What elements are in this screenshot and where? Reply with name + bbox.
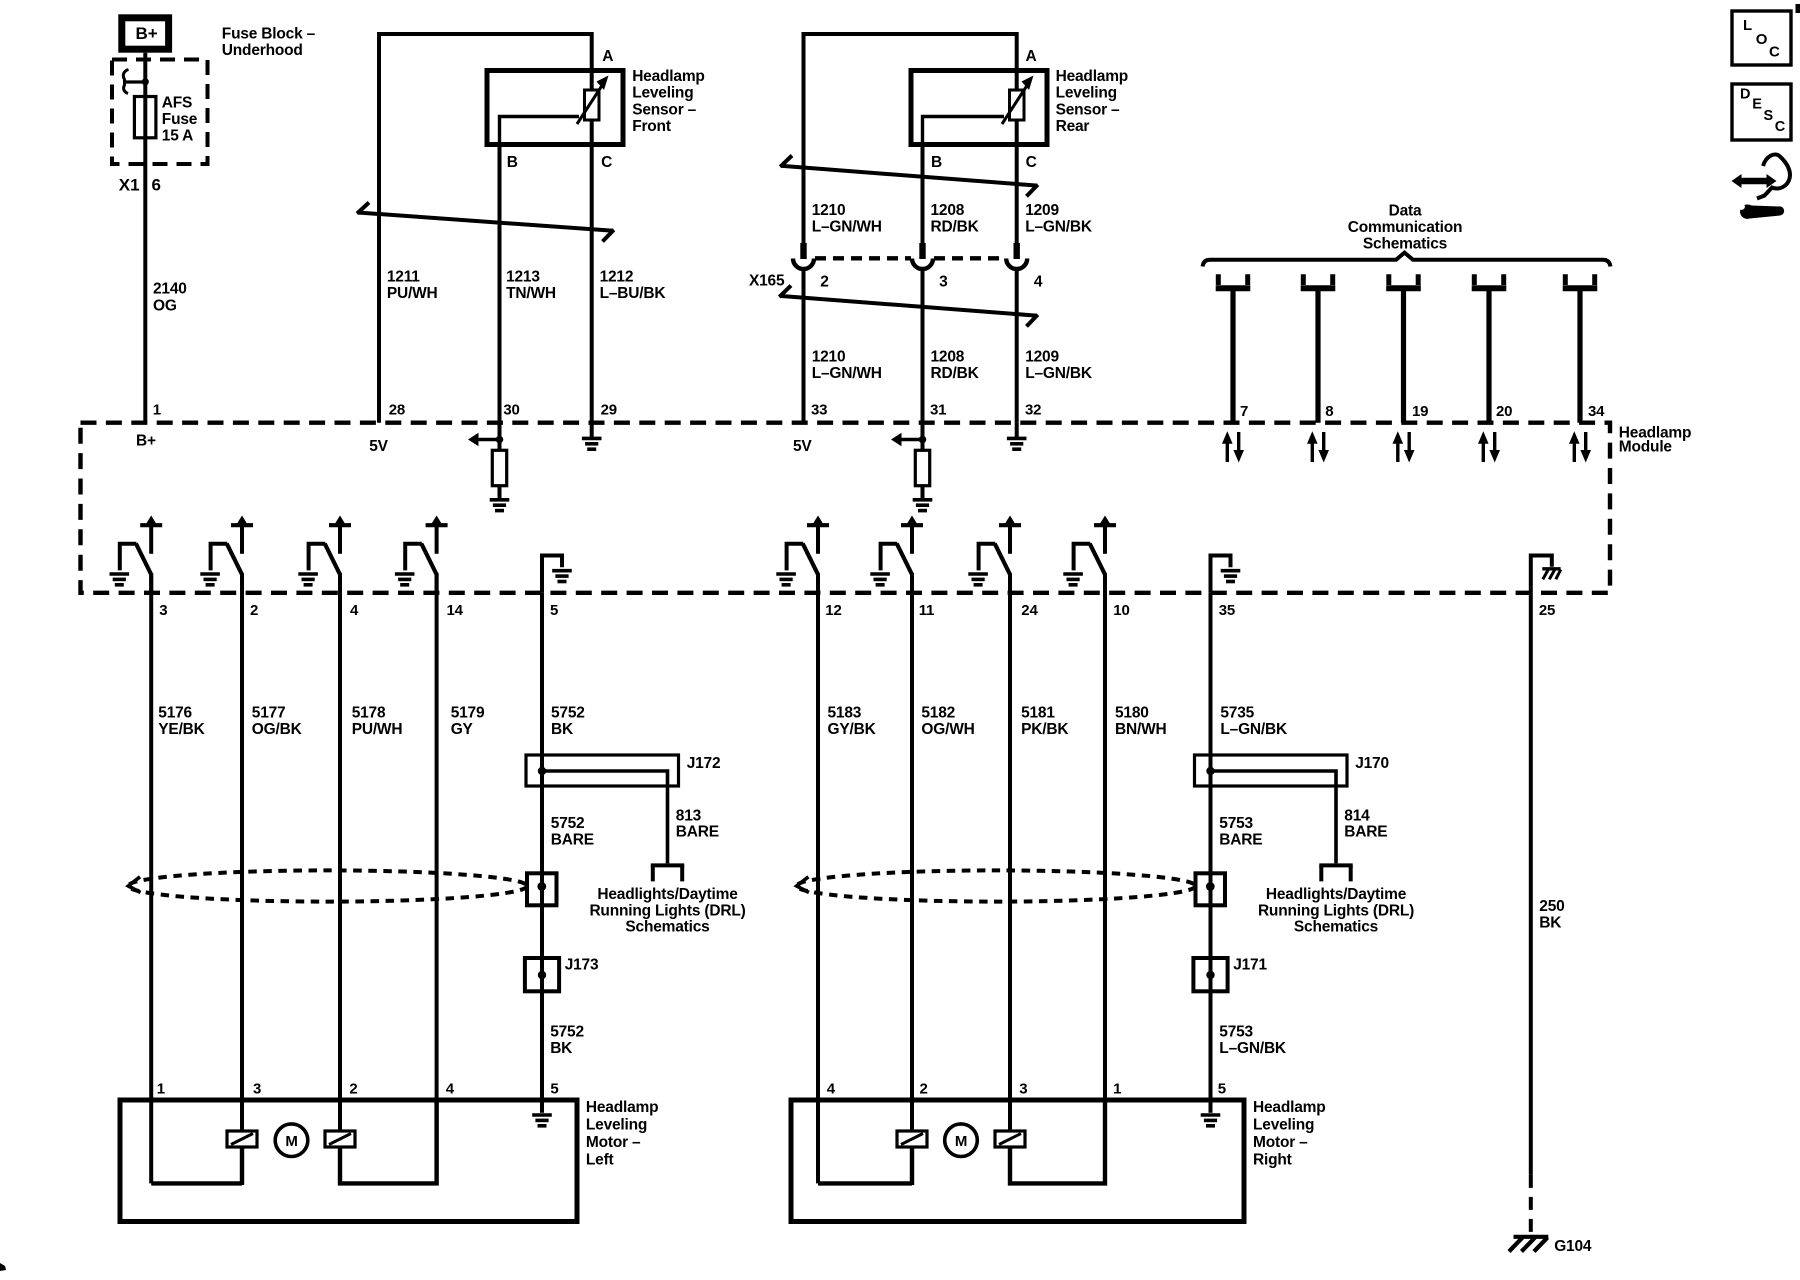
svg-text:GY/BK: GY/BK (828, 721, 877, 738)
svg-text:M: M (955, 1133, 967, 1150)
svg-text:4: 4 (350, 602, 359, 619)
svg-text:BARE: BARE (551, 832, 594, 849)
svg-text:Motor –: Motor – (1253, 1134, 1308, 1151)
bidirectional data arrows pin 20 (1478, 431, 1500, 462)
driver switch pin 11 (870, 516, 923, 593)
headlamp module label (1619, 424, 1691, 455)
wire pin 31 lower (921, 270, 925, 423)
svg-text:BN/WH: BN/WH (1115, 721, 1167, 738)
wire 5735 pin 35 to motor (1209, 593, 1213, 1100)
svg-text:OG/WH: OG/WH (921, 721, 974, 738)
motor left name label (586, 1099, 658, 1169)
svg-text:5181: 5181 (1021, 705, 1055, 722)
wire 5180 pin 10 to motor (1103, 574, 1107, 1183)
data connector stub net 20 (1472, 274, 1507, 423)
svg-text:19: 19 (1412, 403, 1428, 420)
DRL schematic connector left (651, 865, 684, 881)
wire label 1210 L-GN/WH lower (812, 349, 882, 383)
wire label 5753 L-GN/BK lower (1219, 1024, 1287, 1058)
svg-text:Data: Data (1389, 203, 1422, 220)
svg-text:3: 3 (939, 274, 948, 291)
svg-text:Front: Front (632, 118, 671, 135)
svg-text:Module: Module (1619, 438, 1673, 455)
svg-text:5178: 5178 (352, 705, 386, 722)
wire label 813 BARE (676, 808, 719, 841)
svg-text:BK: BK (1539, 915, 1562, 932)
wire B rear upper (921, 145, 925, 244)
pull-up arrow resistor ground pin 31 (891, 423, 932, 511)
wire label 1209 L-GN/BK upper (1025, 202, 1093, 236)
svg-text:250: 250 (1539, 898, 1564, 915)
svg-text:Headlamp: Headlamp (632, 68, 704, 85)
svg-text:E: E (1752, 97, 1762, 113)
brush resistor motor right B (995, 1131, 1025, 1147)
svg-text:RD/BK: RD/BK (931, 365, 980, 382)
wire 5178 pin 4 to motor (338, 574, 342, 1131)
svg-text:33: 33 (811, 402, 827, 419)
svg-text:Schematics: Schematics (1294, 919, 1378, 936)
shield arrow tip right (797, 877, 809, 893)
wire B front to pin 30 (498, 145, 502, 423)
wire C rear upper (1015, 120, 1019, 243)
bidirectional data arrows pin 7 (1222, 431, 1244, 462)
wire label 5752 BK (551, 705, 585, 739)
svg-text:5: 5 (550, 602, 558, 619)
svg-text:5: 5 (550, 1081, 558, 1098)
wire label 5752 BK lower (550, 1024, 584, 1058)
svg-text:Schematics: Schematics (1363, 235, 1447, 252)
shield arrow tip left (128, 877, 140, 893)
svg-text:A: A (602, 48, 613, 65)
svg-text:1208: 1208 (931, 202, 965, 219)
svg-text:L–GN/WH: L–GN/WH (812, 365, 882, 382)
svg-text:1209: 1209 (1025, 202, 1059, 219)
DRL reference label left (589, 886, 745, 936)
shield ellipse left (128, 870, 527, 901)
wire pin 32 lower (1015, 270, 1019, 423)
svg-text:BARE: BARE (1219, 832, 1262, 849)
svg-text:1211: 1211 (387, 269, 420, 286)
svg-text:PK/BK: PK/BK (1021, 721, 1069, 738)
svg-text:35: 35 (1219, 602, 1235, 619)
svg-text:B+: B+ (136, 24, 158, 43)
svg-text:5V: 5V (369, 438, 388, 455)
svg-text:Running Lights (DRL): Running Lights (DRL) (589, 902, 745, 919)
internal ground pin 35 (1211, 556, 1241, 593)
svg-text:PU/WH: PU/WH (352, 721, 403, 738)
data communication schematics label (1348, 203, 1463, 253)
wire label 1211 PU/WH (387, 269, 438, 303)
svg-text:L–GN/BK: L–GN/BK (1219, 1040, 1287, 1057)
DRL schematic connector right (1319, 865, 1352, 881)
wire 5182 pin 11 to motor (910, 574, 914, 1131)
svg-text:Leveling: Leveling (1056, 85, 1117, 102)
svg-text:BK: BK (550, 1040, 573, 1057)
wire 250 BK pin 25 to G104 (1529, 593, 1533, 1175)
wire label 5177 OG/BK (252, 705, 303, 739)
svg-text:5752: 5752 (551, 815, 585, 832)
svg-text:O: O (1756, 31, 1768, 48)
svg-text:1212: 1212 (600, 269, 634, 286)
crossing indicator rear upper (780, 156, 1038, 197)
fuse value label (162, 95, 198, 145)
bidirectional data arrows pin 19 (1393, 431, 1415, 462)
motor M right (945, 1124, 978, 1157)
driver switch pin 14 (395, 516, 448, 593)
splice J171 (1193, 958, 1227, 991)
wire 5183 pin 12 to motor (816, 574, 820, 1183)
wire label 5179 GY (451, 705, 485, 739)
driver switch pin 24 (968, 516, 1021, 593)
svg-text:3: 3 (1019, 1081, 1027, 1098)
svg-text:3: 3 (253, 1081, 261, 1098)
wire dashed segment to G104 (1529, 1175, 1533, 1234)
wire label 5753 BARE (1219, 815, 1262, 849)
wire B+ to fuse (143, 53, 147, 97)
splice J172 (526, 755, 679, 786)
headlamp leveling sensor rear box (911, 71, 1047, 145)
data connector stub net 19 (1386, 274, 1421, 423)
wiper wire front (500, 117, 580, 145)
wiper wire rear (923, 117, 1005, 145)
svg-text:Leveling: Leveling (632, 85, 693, 102)
svg-text:15 A: 15 A (162, 128, 193, 145)
wire label 5182 OG/WH (921, 705, 974, 739)
brush resistor motor left A (227, 1131, 257, 1147)
brush resistor motor left B (325, 1131, 355, 1147)
potentiometer front (577, 76, 609, 125)
sensor rear name label (1056, 68, 1128, 135)
B+ power symbol (122, 18, 169, 49)
svg-text:YE/BK: YE/BK (158, 721, 205, 738)
driver switch pin 2 (200, 516, 253, 593)
svg-text:5753: 5753 (1219, 815, 1253, 832)
wire label 250 BK (1539, 898, 1564, 932)
svg-text:31: 31 (930, 402, 946, 419)
svg-text:1213: 1213 (506, 269, 540, 286)
svg-text:B+: B+ (136, 432, 156, 449)
svg-text:GY: GY (451, 721, 474, 738)
svg-text:5179: 5179 (451, 705, 485, 722)
wire pin 33 lower (802, 270, 806, 423)
svg-text:Headlamp: Headlamp (586, 1099, 658, 1116)
svg-text:28: 28 (389, 402, 405, 419)
connector X165 terminal 4 (1006, 243, 1027, 269)
svg-text:PU/WH: PU/WH (387, 285, 438, 302)
svg-text:1210: 1210 (812, 349, 846, 366)
svg-text:5177: 5177 (252, 705, 286, 722)
ground pin 29 (582, 423, 602, 449)
svg-text:M: M (285, 1133, 297, 1150)
svg-text:A: A (1026, 48, 1037, 65)
headlamp leveling sensor front box (487, 71, 623, 145)
svg-text:4: 4 (446, 1081, 455, 1098)
driver switch pin 3 (110, 516, 163, 593)
svg-text:S: S (1764, 108, 1774, 124)
svg-text:5180: 5180 (1115, 705, 1149, 722)
svg-text:BARE: BARE (676, 824, 719, 841)
svg-text:OG: OG (153, 298, 177, 315)
potentiometer rear (1002, 76, 1034, 125)
fuse AFS 15A (134, 97, 156, 138)
motor M left (275, 1124, 308, 1157)
svg-text:Headlights/Daytime: Headlights/Daytime (597, 886, 738, 903)
page artifact bottom left (0, 1263, 6, 1271)
wire 5177 pin 2 to motor (240, 574, 244, 1131)
svg-text:L–GN/WH: L–GN/WH (812, 219, 882, 236)
svg-text:J171: J171 (1233, 957, 1267, 974)
svg-text:X1: X1 (119, 176, 140, 195)
svg-text:32: 32 (1025, 402, 1041, 419)
svg-text:8: 8 (1325, 403, 1333, 420)
bidirectional data arrows pin 34 (1569, 431, 1591, 462)
wire brush B to bus (340, 1102, 437, 1183)
wire label 5752 BARE (551, 815, 594, 849)
svg-text:L–GN/BK: L–GN/BK (1025, 365, 1093, 382)
shield ellipse right (797, 870, 1196, 901)
wire label 814 BARE (1344, 808, 1387, 841)
wire fuse to module pin 1 (143, 138, 147, 423)
splice J173 (525, 958, 559, 991)
driver switch pin 12 (776, 516, 829, 593)
wire label 1209 L-GN/BK lower (1025, 349, 1093, 383)
svg-text:Motor –: Motor – (586, 1134, 641, 1151)
svg-text:4: 4 (827, 1081, 836, 1098)
wire label 5176 YE/BK (158, 705, 205, 739)
wire 813 branch (542, 771, 668, 863)
wire label 1212 L-BU/BK (600, 269, 667, 303)
headlamp module dashed box (81, 423, 1611, 593)
X165 harness dashed link (815, 256, 1005, 260)
wire label 1210 L-GN/WH upper (812, 202, 882, 236)
wire 5176 pin 3 to motor (149, 574, 153, 1183)
wire brush A to bus (240, 1147, 244, 1185)
motor right ground pin 5 (1201, 1100, 1221, 1126)
crossing indicator rear lower (779, 286, 1038, 327)
svg-text:5735: 5735 (1220, 705, 1254, 722)
wire 5181 pin 24 to motor (1008, 574, 1012, 1131)
svg-text:Fuse Block –: Fuse Block – (222, 26, 316, 43)
wire brush B to bus right (1010, 1102, 1105, 1183)
svg-text:OG/BK: OG/BK (252, 721, 303, 738)
svg-text:Underhood: Underhood (222, 42, 303, 59)
svg-text:Leveling: Leveling (586, 1117, 647, 1134)
svg-text:5182: 5182 (921, 705, 955, 722)
rear sensor supply loop wire (pin 33 to A) (804, 34, 1017, 243)
svg-text:2: 2 (349, 1081, 357, 1098)
svg-text:1: 1 (153, 402, 161, 419)
svg-text:Left: Left (586, 1152, 614, 1169)
svg-text:30: 30 (503, 402, 519, 419)
internal ground pin 5 (542, 556, 572, 593)
fuse block - underhood dashed box (112, 60, 208, 165)
svg-text:2: 2 (920, 1081, 928, 1098)
svg-text:25: 25 (1539, 602, 1555, 619)
fuse clip hook (123, 70, 149, 94)
wire 5179 pin 14 to motor (435, 574, 439, 1183)
wire label 1213 TN/WH (506, 269, 556, 303)
svg-text:5752: 5752 (550, 1024, 584, 1041)
svg-text:C: C (1775, 119, 1786, 135)
headlamp leveling motor left box (120, 1100, 577, 1222)
data connector stub net 8 (1301, 274, 1336, 423)
svg-text:14: 14 (447, 602, 464, 619)
svg-text:C: C (1026, 154, 1037, 171)
svg-text:Schematics: Schematics (625, 919, 709, 936)
motor left ground pin 5 (532, 1100, 552, 1126)
svg-text:C: C (1769, 43, 1780, 60)
connector X165 terminal 2 (793, 243, 814, 269)
LOC icon (1732, 11, 1791, 65)
svg-text:5752: 5752 (551, 705, 585, 722)
svg-text:L–BU/BK: L–BU/BK (600, 285, 667, 302)
svg-text:J172: J172 (687, 755, 721, 772)
wire 5752 pin 5 to motor (540, 593, 544, 1100)
sensor front name label (632, 68, 704, 135)
svg-text:B: B (507, 154, 518, 171)
svg-text:5V: 5V (793, 438, 812, 455)
DRL reference label right (1258, 886, 1414, 936)
svg-text:G104: G104 (1554, 1238, 1592, 1255)
svg-text:29: 29 (601, 402, 617, 419)
svg-text:Fuse: Fuse (162, 111, 198, 128)
wire label 5183 GY/BK (828, 705, 877, 739)
svg-text:12: 12 (825, 602, 841, 619)
svg-text:20: 20 (1496, 403, 1512, 420)
svg-text:BK: BK (551, 721, 574, 738)
data connector stub net 7 (1216, 274, 1251, 423)
shield termination box right (1196, 873, 1226, 905)
brush resistor motor right A (897, 1131, 927, 1147)
svg-text:Sensor –: Sensor – (632, 101, 696, 118)
svg-text:L: L (1743, 17, 1752, 34)
internal chassis ground pin 25 (1531, 556, 1561, 593)
svg-text:X165: X165 (749, 273, 785, 290)
svg-text:Leveling: Leveling (1253, 1117, 1314, 1134)
driver switch pin 4 (298, 516, 351, 593)
headlamp leveling motor right box (791, 1100, 1244, 1222)
svg-text:814: 814 (1344, 808, 1370, 825)
svg-text:Rear: Rear (1056, 118, 1090, 135)
svg-text:2140: 2140 (153, 281, 187, 298)
svg-text:1208: 1208 (931, 349, 965, 366)
svg-text:C: C (601, 154, 612, 171)
motor left internal wire pin1 bus (151, 1181, 242, 1185)
brace over data wires (1203, 253, 1611, 267)
svg-text:3: 3 (159, 602, 167, 619)
front sensor supply loop wire (pin 28 to A) (379, 34, 592, 423)
wire C front to pin 29 (590, 120, 594, 423)
ground pin 32 (1007, 423, 1027, 449)
svg-text:Headlamp: Headlamp (1253, 1099, 1325, 1116)
svg-text:11: 11 (919, 602, 934, 619)
diagnostic arrow wrench icon (1732, 154, 1790, 218)
svg-text:Sensor –: Sensor – (1056, 101, 1120, 118)
svg-text:RD/BK: RD/BK (931, 219, 980, 236)
connector X165 terminal 3 (912, 243, 933, 269)
svg-text:5183: 5183 (828, 705, 862, 722)
svg-text:J170: J170 (1355, 755, 1389, 772)
wire brush A to bus right (910, 1147, 914, 1185)
svg-text:5: 5 (1218, 1081, 1226, 1098)
svg-text:BARE: BARE (1344, 824, 1387, 841)
svg-text:2: 2 (820, 274, 828, 291)
wire label 1208 RD/BK upper (931, 202, 980, 236)
DESC icon (1732, 84, 1791, 140)
wire label 5180 BN/WH (1115, 705, 1167, 739)
wire label 5735 L-GN/BK (1220, 705, 1288, 739)
svg-text:Communication: Communication (1348, 219, 1463, 236)
svg-text:L–GN/BK: L–GN/BK (1220, 721, 1288, 738)
svg-text:D: D (1740, 86, 1750, 102)
fuse block label (222, 26, 316, 60)
wire label 5178 PU/WH (352, 705, 403, 739)
bidirectional data arrows pin 8 (1307, 431, 1329, 462)
svg-text:5753: 5753 (1219, 1024, 1253, 1041)
svg-text:2: 2 (250, 602, 258, 619)
wire label 5181 PK/BK (1021, 705, 1069, 739)
svg-text:34: 34 (1588, 403, 1605, 420)
svg-text:L–GN/BK: L–GN/BK (1025, 219, 1093, 236)
motor right internal wire pin4 bus (818, 1181, 912, 1185)
data connector stub net 34 (1563, 274, 1598, 423)
svg-text:1: 1 (1113, 1081, 1121, 1098)
driver switch pin 10 (1063, 516, 1116, 593)
svg-text:Headlights/Daytime: Headlights/Daytime (1266, 886, 1407, 903)
svg-text:B: B (931, 154, 942, 171)
svg-text:J173: J173 (565, 957, 599, 974)
svg-text:1: 1 (157, 1081, 165, 1098)
page artifact top right (1796, 4, 1800, 13)
wire 814 branch (1211, 771, 1337, 863)
svg-text:TN/WH: TN/WH (506, 285, 556, 302)
svg-text:1209: 1209 (1025, 349, 1059, 366)
svg-text:1210: 1210 (812, 202, 846, 219)
splice J170 (1195, 755, 1348, 786)
pull-up arrow resistor ground pin 30 (468, 423, 509, 511)
svg-text:813: 813 (676, 808, 702, 825)
chassis ground G104 (1509, 1237, 1548, 1252)
wire label 1208 RD/BK lower (931, 349, 980, 383)
svg-text:Right: Right (1253, 1152, 1292, 1169)
wire label 2140 OG (153, 281, 187, 315)
shield termination box left (527, 873, 557, 905)
svg-text:AFS: AFS (162, 95, 192, 112)
svg-text:24: 24 (1021, 602, 1038, 619)
svg-text:6: 6 (152, 176, 161, 195)
motor right name label (1253, 1099, 1325, 1169)
svg-text:10: 10 (1113, 602, 1129, 619)
svg-text:Running Lights (DRL): Running Lights (DRL) (1258, 902, 1414, 919)
crossing indicator front (357, 203, 614, 242)
svg-text:Headlamp: Headlamp (1056, 68, 1128, 85)
svg-text:7: 7 (1240, 403, 1248, 420)
svg-text:5176: 5176 (158, 705, 192, 722)
svg-text:4: 4 (1034, 274, 1043, 291)
